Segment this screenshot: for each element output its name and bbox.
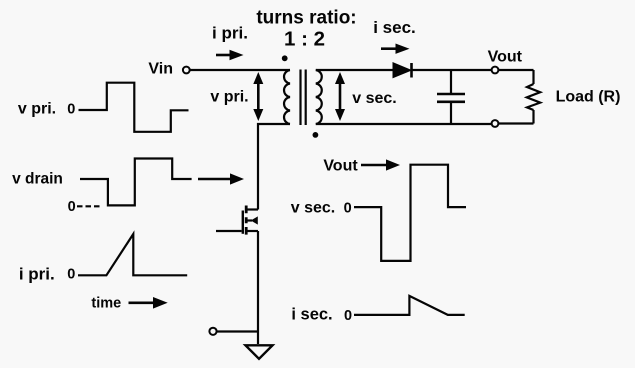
MOSFET Q1 channel bars	[245, 206, 248, 235]
MOSFET Q1 drain stub	[247, 208, 258, 210]
svg-text:0: 0	[67, 267, 75, 283]
transformer T1 core	[301, 70, 306, 126]
svg-text:v sec.: v sec.	[352, 90, 396, 107]
wire ground return to terminal	[217, 330, 259, 332]
wire primary bottom to drain	[258, 124, 290, 210]
svg-text:Vout: Vout	[488, 49, 523, 66]
diode D1	[393, 63, 411, 78]
arrow v pri. double	[253, 72, 263, 121]
MOSFET Q1 body arrow head	[251, 216, 258, 224]
svg-text:Load (R): Load (R)	[556, 89, 621, 106]
MOSFET Q1 body lead	[247, 219, 252, 221]
svg-text:v drain: v drain	[12, 171, 63, 188]
svg-text:i pri.: i pri.	[212, 23, 248, 42]
svg-text:v pri.: v pri.	[210, 89, 248, 106]
svg-text:i sec.: i sec.	[373, 18, 416, 37]
MOSFET Q1 source stub	[247, 230, 258, 232]
ground symbol	[246, 345, 273, 359]
capacitor C1 plates	[437, 94, 465, 102]
svg-text:turns ratio:: turns ratio:	[256, 8, 356, 29]
waveform v sec.	[354, 165, 466, 261]
wire Vin to transformer primary top	[190, 69, 290, 71]
waveform i sec.	[354, 296, 465, 315]
svg-text:0: 0	[67, 102, 75, 118]
svg-text:i pri.: i pri.	[19, 265, 55, 284]
arrow i sec.	[381, 44, 410, 54]
waveform v pri.	[79, 83, 189, 132]
waveform v drain	[80, 159, 192, 206]
arrow v drain to drain node	[198, 173, 244, 184]
svg-text:v sec.: v sec.	[291, 200, 335, 217]
MOSFET Q1 gate bar	[242, 211, 244, 234]
wire secondary bottom rail	[316, 122, 534, 125]
arrow Vout to v sec high level	[361, 159, 400, 170]
transformer T1 primary winding	[284, 70, 290, 124]
terminal ground left	[209, 328, 216, 335]
arrow time axis	[129, 297, 168, 309]
arrow i pri.	[216, 50, 244, 60]
terminal Vin	[183, 67, 190, 74]
svg-text:v pri.: v pri.	[18, 101, 56, 118]
svg-text:Vin: Vin	[148, 61, 173, 78]
svg-text:0: 0	[344, 308, 352, 324]
svg-text:time: time	[91, 296, 121, 312]
svg-text:0: 0	[68, 199, 76, 215]
terminal output bottom	[492, 120, 499, 127]
svg-text:Vout: Vout	[323, 158, 358, 175]
arrow v sec. double	[335, 72, 345, 121]
transformer T1 secondary winding	[316, 70, 322, 124]
wire to ground symbol	[257, 332, 259, 345]
diode D1 cathode bar	[410, 63, 413, 78]
transformer primary polarity dot	[282, 55, 288, 61]
wire source to ground rail	[257, 231, 259, 332]
svg-text:1 : 2: 1 : 2	[284, 28, 325, 51]
wire secondary top to diode anode	[316, 69, 393, 71]
wire diode cathode to load top corner	[412, 69, 534, 71]
waveform i pri.	[78, 234, 187, 275]
resistor Load (R) leads	[532, 70, 534, 124]
capacitor C1 top lead	[450, 70, 452, 94]
terminal Vout top	[492, 67, 499, 74]
resistor Load (R) zigzag	[527, 84, 540, 110]
capacitor C1 bottom lead	[450, 102, 452, 124]
waveform v drain zero dashes	[77, 205, 100, 207]
MOSFET Q1 gate lead wire	[216, 230, 242, 232]
svg-text:i sec.: i sec.	[291, 306, 332, 324]
transformer secondary polarity dot	[313, 132, 319, 138]
svg-text:0: 0	[344, 201, 352, 217]
